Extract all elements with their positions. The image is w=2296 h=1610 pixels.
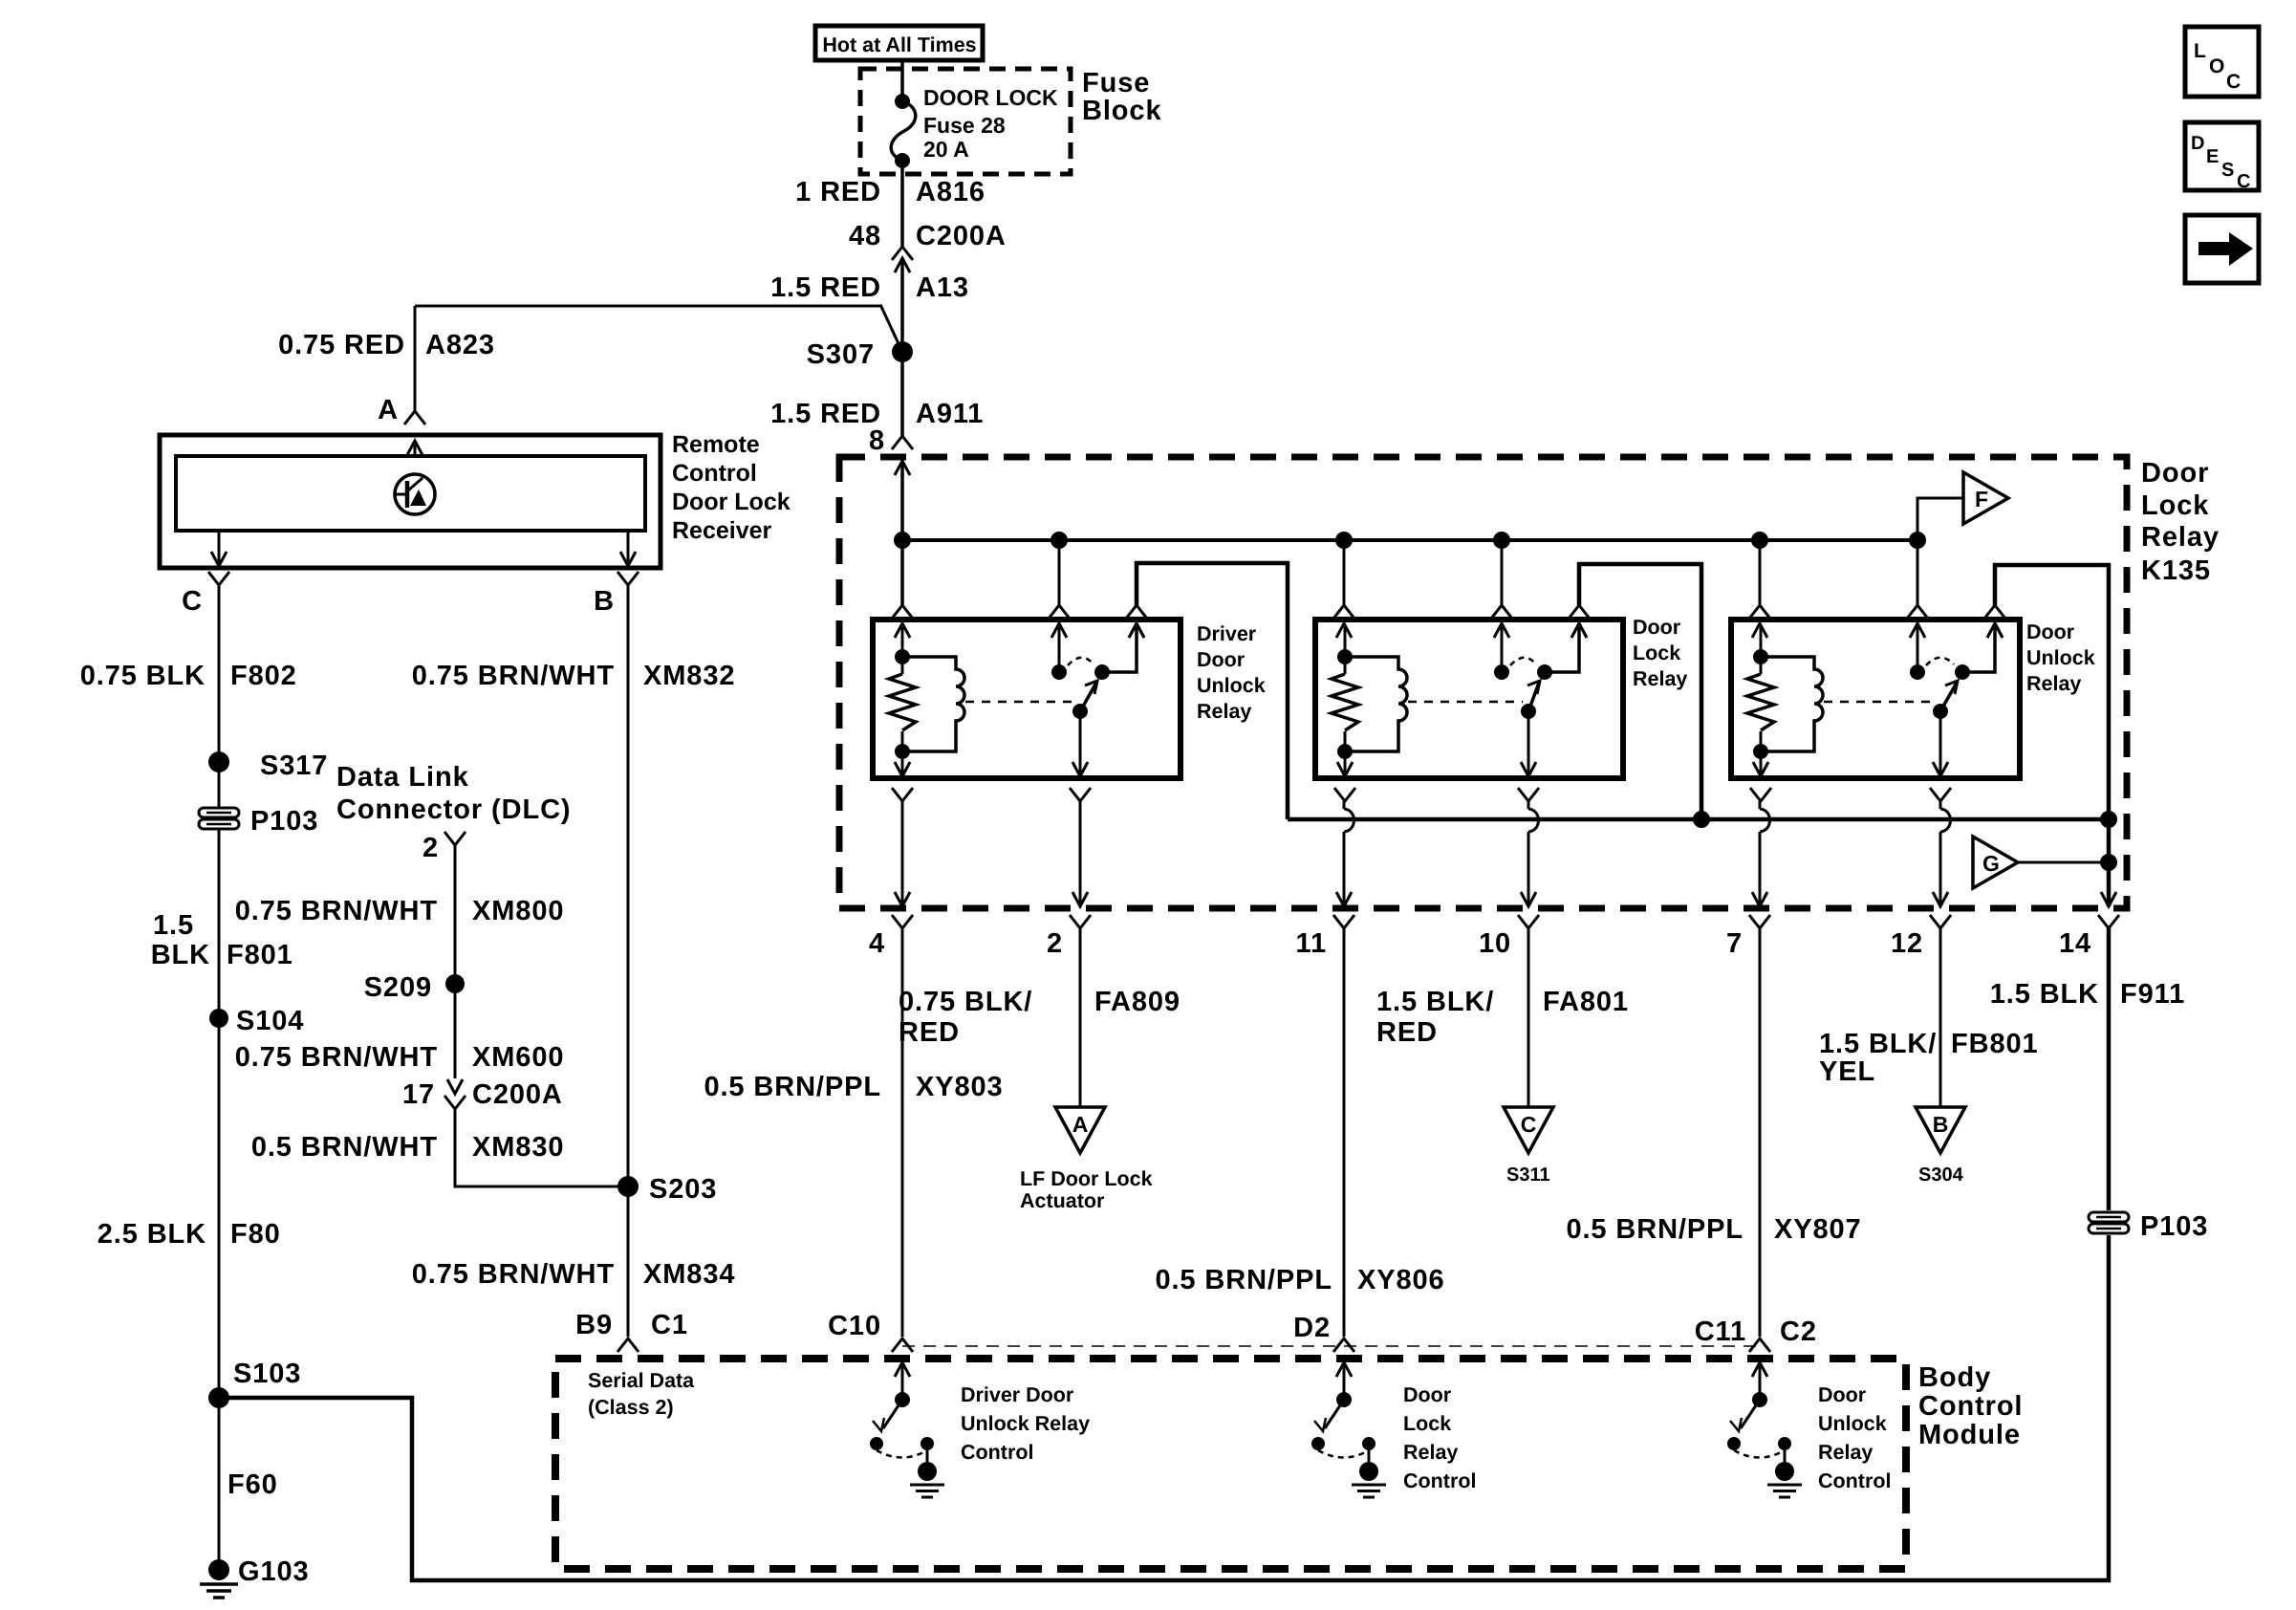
relay arm pivot xyxy=(1072,704,1088,719)
connector C200A pin 48 (female) xyxy=(892,247,913,260)
pass-through P103 (left) xyxy=(199,808,239,817)
wire: 1.5 BLK F911 ground leg from pin 14 xyxy=(2107,928,2112,1210)
connector: receiver pin C female xyxy=(208,572,229,585)
relay coil feed stem xyxy=(1344,627,1347,657)
svg-text:0.75 BRN/WHT: 0.75 BRN/WHT xyxy=(235,1042,438,1073)
BCM driver switch arm xyxy=(1325,1400,1344,1428)
connector: K135 bottom pin (male arrow down) xyxy=(1933,892,1948,906)
power label box: Hot at All Times xyxy=(815,26,983,60)
svg-text:Relay: Relay xyxy=(1197,700,1251,723)
svg-text:Unlock: Unlock xyxy=(1818,1412,1887,1435)
off-page connector G xyxy=(1973,837,2018,888)
ground G103 xyxy=(208,1559,229,1580)
relay arm pivot xyxy=(1521,704,1536,719)
relay NC lead arrow to box top xyxy=(1987,623,2003,638)
BCM second contact xyxy=(921,1437,934,1450)
svg-text:S: S xyxy=(2221,160,2234,181)
junction: lower bus at pin 14 leg xyxy=(2100,811,2117,828)
legend box forward arrow xyxy=(2185,215,2259,283)
svg-text:S209: S209 xyxy=(364,972,432,1003)
svg-text:S104: S104 xyxy=(236,1006,304,1036)
connector: K135 bottom pin (female) xyxy=(1749,915,1770,928)
svg-text:A: A xyxy=(378,395,399,425)
BCM internal ground xyxy=(1784,1450,1787,1462)
svg-text:A823: A823 xyxy=(425,330,495,360)
wire: receiver pin A lead xyxy=(414,306,417,411)
connector at relay box top (male arrow) xyxy=(1752,623,1767,638)
Door Lock Relay K135 dashed outline xyxy=(839,457,2127,908)
relay box xyxy=(1315,620,1623,778)
svg-text:Control: Control xyxy=(1818,1469,1891,1492)
BCM second contact xyxy=(1362,1437,1375,1450)
relay coil output arrow xyxy=(1344,751,1347,774)
svg-text:Unlock: Unlock xyxy=(1197,674,1266,697)
relay box xyxy=(1731,620,2020,778)
connector: BCM pin B9/C1 female xyxy=(617,1338,639,1352)
BCM internal ground xyxy=(1368,1450,1371,1462)
svg-text:0.75 RED: 0.75 RED xyxy=(278,330,405,360)
svg-text:Control: Control xyxy=(1403,1469,1476,1492)
svg-text:10: 10 xyxy=(1479,928,1511,959)
svg-text:XY803: XY803 xyxy=(916,1072,1004,1102)
wire: G branch xyxy=(2017,861,2109,864)
relay suppression resistor xyxy=(1344,657,1347,674)
connector: K135 bottom pin (male arrow down) xyxy=(1752,892,1767,906)
svg-text:Lock: Lock xyxy=(1633,642,1680,664)
svg-text:0.75 BLK/: 0.75 BLK/ xyxy=(899,987,1032,1017)
svg-text:1.5 RED: 1.5 RED xyxy=(770,399,881,429)
svg-text:1.5 BLK/: 1.5 BLK/ xyxy=(1819,1029,1937,1059)
BCM contact dashed arc xyxy=(1734,1450,1785,1458)
svg-text:Unlock: Unlock xyxy=(2026,646,2095,669)
connector below relay box (female) xyxy=(1070,788,1091,801)
connector: K135 pin 8 (male arrow) xyxy=(895,461,910,475)
svg-text:Control: Control xyxy=(672,460,757,487)
svg-text:S307: S307 xyxy=(807,339,875,370)
svg-text:C10: C10 xyxy=(828,1311,881,1341)
svg-text:XY807: XY807 xyxy=(1774,1214,1862,1245)
svg-text:Receiver: Receiver xyxy=(672,517,772,544)
connector at relay box top (male arrow) xyxy=(1987,623,2003,638)
splice S307 xyxy=(892,341,913,362)
svg-text:Door: Door xyxy=(2141,458,2209,489)
svg-text:Relay: Relay xyxy=(1403,1441,1458,1464)
connector at relay box top (male arrow) xyxy=(1336,623,1352,638)
BCM low-side driver arrow xyxy=(1752,1362,1767,1377)
wire: 0.5 BRN/PPL XY807 pin7 to BCM C11/C2 xyxy=(1759,928,1762,1337)
relay contact dashed throw arc xyxy=(1926,658,1954,665)
relay contact dashed throw arc xyxy=(1510,658,1536,665)
svg-text:Driver Door: Driver Door xyxy=(961,1383,1074,1406)
svg-text:S203: S203 xyxy=(649,1174,717,1205)
connector: K135 bottom pin (female) xyxy=(1070,915,1091,928)
svg-text:D2: D2 xyxy=(1293,1313,1331,1343)
connector at relay box top (male arrow) xyxy=(895,623,910,638)
connector: receiver pin A male arrow xyxy=(407,441,422,455)
connector at relay box top (female) xyxy=(1333,605,1354,619)
svg-text:O: O xyxy=(2209,55,2224,77)
splice S203 xyxy=(617,1176,639,1197)
svg-text:8: 8 xyxy=(869,425,885,456)
wire: fuse output 1 RED A816 xyxy=(900,168,904,247)
wire: relay feed drops from bus to relay tops xyxy=(1058,540,1061,605)
svg-text:7: 7 xyxy=(1726,928,1743,959)
wire: 1.5 BLK/YEL FB801 pin12 to S304 xyxy=(1939,928,1942,1107)
junction: bus to door unlock relay switch feed / F branch xyxy=(1909,532,1926,549)
svg-text:Data Link: Data Link xyxy=(336,762,469,793)
svg-text:DOOR LOCK: DOOR LOCK xyxy=(923,85,1058,110)
svg-text:B: B xyxy=(594,586,615,617)
connector C200A pin 17 (female) xyxy=(444,1096,466,1109)
svg-text:Lock: Lock xyxy=(1403,1412,1451,1435)
junction: bus at pin8 wire xyxy=(894,532,911,549)
svg-text:A: A xyxy=(1072,1112,1089,1137)
svg-text:C: C xyxy=(2226,71,2241,93)
svg-text:1.5 BLK: 1.5 BLK xyxy=(1990,979,2099,1010)
connector: K135 pin 8 (female) xyxy=(892,436,913,449)
svg-text:0.5 BRN/WHT: 0.5 BRN/WHT xyxy=(251,1132,438,1163)
receiver RF transistor symbol xyxy=(395,474,435,514)
BCM driver node xyxy=(895,1392,910,1407)
svg-text:G103: G103 xyxy=(238,1556,310,1587)
relay NC contact lead xyxy=(1545,627,1579,672)
connector: BCM D2 female xyxy=(1333,1338,1354,1352)
connector at relay box top (female) xyxy=(1749,605,1770,619)
svg-text:C: C xyxy=(1521,1112,1537,1137)
svg-text:(Class 2): (Class 2) xyxy=(588,1396,674,1419)
relay coil feed stem xyxy=(901,627,904,657)
relay actuation dashed link xyxy=(965,701,1074,704)
wire: 1.5 BLK/RED FA801 pin10 to S311 xyxy=(1527,928,1530,1107)
relay suppression resistor xyxy=(1760,657,1763,674)
lower bus wire inside K135 xyxy=(1288,817,2109,822)
junction: door lock relay NC route on lower bus xyxy=(1693,811,1710,828)
svg-text:B9: B9 xyxy=(575,1310,613,1340)
fuse F28 element (DOOR LOCK fuse) xyxy=(895,94,910,109)
svg-text:G: G xyxy=(1982,851,2000,876)
junction: bus to door lock relay coil feed xyxy=(1335,532,1353,549)
junction: bus to door unlock relay coil feed xyxy=(1751,532,1768,549)
svg-text:XM830: XM830 xyxy=(472,1132,564,1163)
svg-text:0.5 BRN/PPL: 0.5 BRN/PPL xyxy=(704,1072,881,1102)
connector: K135 bottom pin (male arrow down) xyxy=(895,892,910,906)
svg-text:Connector (DLC): Connector (DLC) xyxy=(336,794,571,825)
ground routing wire to S103 xyxy=(219,1235,2109,1580)
svg-text:Relay: Relay xyxy=(2141,522,2220,553)
connector at relay box top (male arrow) xyxy=(1129,623,1144,638)
svg-text:Door: Door xyxy=(1818,1383,1867,1406)
svg-text:Door: Door xyxy=(1197,648,1245,671)
relay NC lead arrow to box top xyxy=(1571,623,1587,638)
relay NC lead arrow to box top xyxy=(1129,623,1144,638)
BCM driver node xyxy=(1336,1392,1352,1407)
svg-text:L: L xyxy=(2194,40,2206,62)
svg-text:C1: C1 xyxy=(651,1310,688,1340)
connector at relay box top (female) xyxy=(1907,605,1928,619)
svg-text:XM834: XM834 xyxy=(643,1259,735,1290)
svg-text:XM600: XM600 xyxy=(472,1042,564,1073)
relay switch common contact xyxy=(1910,664,1925,680)
svg-text:RED: RED xyxy=(1376,1017,1438,1048)
svg-text:FB801: FB801 xyxy=(1951,1029,2039,1059)
wire: branch to off-page connector F xyxy=(1917,498,1963,540)
svg-text:Driver: Driver xyxy=(1197,622,1257,645)
wire: door unlock relay NC route xyxy=(1995,565,2109,906)
svg-text:Actuator: Actuator xyxy=(1020,1189,1105,1212)
connector below relay box (female) xyxy=(892,788,913,801)
svg-text:1.5 BLK/: 1.5 BLK/ xyxy=(1376,987,1494,1017)
relay NC contact xyxy=(1537,664,1552,680)
connector: K135 bottom pin (female) xyxy=(1930,915,1951,928)
svg-text:0.75 BRN/WHT: 0.75 BRN/WHT xyxy=(235,896,438,926)
svg-text:S304: S304 xyxy=(1918,1164,1964,1186)
relay coil bottom junction xyxy=(895,744,910,759)
wire: 1.5 RED A13 xyxy=(900,258,904,352)
wire: door lock relay NC route xyxy=(1579,564,1701,819)
svg-text:Serial Data: Serial Data xyxy=(588,1369,695,1392)
svg-text:20 A: 20 A xyxy=(923,137,969,162)
wire: relay switch output to pin 10 (jumps lower bus) xyxy=(1527,801,1530,809)
svg-text:F801: F801 xyxy=(227,940,293,970)
BCM second contact xyxy=(1778,1437,1791,1450)
connector: K135 bottom pin (male arrow down) xyxy=(1336,892,1352,906)
off-page connector F xyxy=(1963,472,2008,524)
svg-text:17: 17 xyxy=(402,1079,435,1110)
wire: branch to receiver pin A (0.75 RED A823) xyxy=(415,305,880,308)
svg-text:C11: C11 xyxy=(1695,1316,1746,1347)
relay actuation dashed link xyxy=(1824,701,1935,704)
relay NC contact lead xyxy=(1102,627,1137,672)
svg-text:1.5: 1.5 xyxy=(153,910,194,941)
relay coil winding xyxy=(1761,657,1823,751)
svg-text:S317: S317 xyxy=(260,751,328,781)
svg-text:F80: F80 xyxy=(230,1219,281,1250)
svg-text:Hot at All Times: Hot at All Times xyxy=(822,33,976,56)
off-page connector C (S311) xyxy=(1504,1107,1553,1153)
svg-text:Lock: Lock xyxy=(2141,490,2209,521)
connector below relay box (female) xyxy=(1334,788,1355,801)
relay movable arm xyxy=(1528,683,1539,711)
BCM low-side driver arrow xyxy=(1336,1362,1352,1377)
connector at relay box top (female) xyxy=(892,605,913,619)
wire: hot feed from fuse block top xyxy=(900,60,904,96)
svg-text:K135: K135 xyxy=(2141,555,2211,586)
svg-text:2.5 BLK: 2.5 BLK xyxy=(97,1219,206,1250)
svg-text:XM832: XM832 xyxy=(643,661,735,691)
connector at relay box top (male arrow) xyxy=(1910,623,1925,638)
relay coil top junction xyxy=(895,649,910,664)
svg-text:E: E xyxy=(2206,146,2219,167)
svg-text:B: B xyxy=(1933,1112,1949,1137)
relay movable arm xyxy=(1080,683,1096,711)
BCM driver switch arm xyxy=(883,1400,902,1428)
connector at relay box top (male arrow) xyxy=(1494,623,1509,638)
BCM switch contact xyxy=(1311,1437,1325,1450)
wire: 0.75 BLK/RED FA809 pin2 to LF door lock actuator xyxy=(1079,928,1082,1107)
connector: BCM C11/C2 female xyxy=(1749,1338,1770,1352)
connector at relay box top (male arrow) xyxy=(1571,623,1587,638)
connector: K135 bottom pin (male arrow down) xyxy=(1521,892,1536,906)
wire: 0.75 BLK F802 / ground chain from receiver pin C xyxy=(218,585,221,1560)
connector: K135 bottom pin (male arrow down) xyxy=(2101,892,2116,906)
legend box DESC xyxy=(2185,122,2259,190)
relay movable arm xyxy=(1940,683,1957,711)
connector: K135 bottom pin (female) xyxy=(1518,915,1539,928)
svg-text:A13: A13 xyxy=(916,272,969,303)
svg-text:S103: S103 xyxy=(233,1359,301,1389)
wire: relay coil output to pin 4 xyxy=(901,801,904,906)
svg-text:Relay: Relay xyxy=(2026,672,2081,695)
svg-text:12: 12 xyxy=(1891,928,1923,959)
splice S104 xyxy=(209,1009,228,1028)
wire: K135 internal feed down to bus xyxy=(900,461,904,605)
relay actuation dashed link xyxy=(1408,701,1523,704)
relay switch common contact xyxy=(1051,664,1067,680)
svg-text:Block: Block xyxy=(1082,96,1161,126)
svg-text:YEL: YEL xyxy=(1819,1056,1875,1087)
svg-text:F911: F911 xyxy=(2120,979,2185,1010)
svg-text:Module: Module xyxy=(1918,1420,2021,1450)
svg-text:FA809: FA809 xyxy=(1094,987,1180,1017)
wire: 0.5 BRN/PPL XY806 pin11 to BCM D2 xyxy=(1343,928,1346,1337)
relay switch common contact xyxy=(1494,664,1509,680)
BCM driver switch arm xyxy=(1741,1400,1760,1428)
relay arm pivot xyxy=(1933,704,1948,719)
BCM contact dashed arc xyxy=(1318,1450,1369,1458)
legend box LOC xyxy=(2185,27,2259,97)
svg-text:11: 11 xyxy=(1296,928,1327,959)
svg-text:Fuse 28: Fuse 28 xyxy=(923,113,1006,138)
svg-text:Door: Door xyxy=(2026,620,2075,643)
connector: receiver pin B female xyxy=(617,572,639,585)
svg-text:1 RED: 1 RED xyxy=(795,177,881,207)
connector at relay box top (female) xyxy=(1126,605,1147,619)
svg-text:Fuse: Fuse xyxy=(1082,68,1150,98)
relay switch feed stem to common contact xyxy=(1917,627,1919,672)
Fuse Block dashed outline xyxy=(860,69,1071,174)
svg-text:C: C xyxy=(2237,171,2250,192)
svg-text:4: 4 xyxy=(869,928,885,959)
relay box xyxy=(873,620,1180,778)
connector: K135 bottom pin (female) xyxy=(892,915,913,928)
junction: bus to door lock relay switch feed xyxy=(1493,532,1510,549)
relay coil winding xyxy=(902,657,964,751)
svg-text:C: C xyxy=(182,586,203,617)
relay NC contact xyxy=(1955,664,1970,680)
svg-text:F802: F802 xyxy=(230,661,297,691)
connector: K135 bottom pin (male arrow down) xyxy=(1072,892,1088,906)
svg-text:Unlock Relay: Unlock Relay xyxy=(961,1412,1090,1435)
relay switch feed stem to common contact xyxy=(1501,627,1504,672)
svg-text:Body: Body xyxy=(1918,1362,1991,1393)
connector below relay box (female) xyxy=(1750,788,1771,801)
BCM switch contact xyxy=(1727,1437,1741,1450)
junction: bus to driver door unlock relay switch feed xyxy=(1051,532,1068,549)
svg-text:Relay: Relay xyxy=(1633,667,1687,690)
relay suppression resistor xyxy=(901,657,904,674)
connector below relay box (female) xyxy=(1930,788,1951,801)
svg-text:A911: A911 xyxy=(916,399,984,429)
relay switched output arrow xyxy=(1939,711,1942,774)
svg-text:Relay: Relay xyxy=(1818,1441,1873,1464)
svg-text:48: 48 xyxy=(849,221,881,251)
relay coil bottom junction xyxy=(1753,744,1768,759)
svg-text:14: 14 xyxy=(2059,928,2091,959)
relay NC contact xyxy=(1094,664,1110,680)
relay coil bottom junction xyxy=(1337,744,1353,759)
svg-text:0.5 BRN/PPL: 0.5 BRN/PPL xyxy=(1155,1265,1332,1295)
wire: serial data from receiver pin B xyxy=(627,585,630,1337)
svg-text:C200A: C200A xyxy=(472,1079,563,1110)
svg-text:XY806: XY806 xyxy=(1357,1265,1445,1295)
wire: 0.5 BRN/WHT XM830 xyxy=(455,1109,628,1186)
pass-through P103 (right) xyxy=(2089,1212,2129,1222)
svg-text:BLK: BLK xyxy=(151,940,210,970)
splice S317 xyxy=(208,751,229,772)
connector: BCM C10 female xyxy=(892,1338,913,1352)
svg-text:P103: P103 xyxy=(2140,1211,2208,1242)
connector at relay box top (male arrow) xyxy=(1051,623,1067,638)
svg-text:C2: C2 xyxy=(1780,1316,1817,1347)
svg-text:Door: Door xyxy=(1633,616,1681,639)
Body Control Module dashed outline xyxy=(555,1359,1906,1569)
relay switched output arrow xyxy=(1079,711,1082,774)
svg-text:0.5 BRN/PPL: 0.5 BRN/PPL xyxy=(1566,1214,1744,1245)
wire: 0.5 BRN/PPL XY803 pin4 to BCM C10 xyxy=(901,928,904,1337)
svg-text:S311: S311 xyxy=(1506,1164,1550,1186)
relay coil top junction xyxy=(1337,649,1353,664)
BCM low-side driver arrow xyxy=(895,1362,910,1377)
relay NC contact lead xyxy=(1962,627,1995,672)
wire: relay switch output to pin 12 (jumps lower bus) xyxy=(1939,801,1942,809)
relay coil output arrow xyxy=(901,751,904,774)
svg-text:0.75 BLK: 0.75 BLK xyxy=(80,661,206,691)
svg-text:2: 2 xyxy=(1047,928,1063,959)
connector at relay box top (female) xyxy=(1569,605,1590,619)
BCM driver node xyxy=(1752,1392,1767,1407)
BCM switch contact xyxy=(870,1437,883,1450)
svg-text:FA801: FA801 xyxy=(1543,987,1629,1017)
svg-text:F60: F60 xyxy=(227,1469,278,1500)
relay coil top junction xyxy=(1753,649,1768,664)
wire: 1.5 RED A911 into door lock relay xyxy=(900,352,904,436)
svg-text:0.75 BRN/WHT: 0.75 BRN/WHT xyxy=(412,661,615,691)
connector C200A pin 17 (male arrow down) xyxy=(447,1079,463,1094)
BCM contact dashed arc xyxy=(877,1450,927,1458)
svg-text:F: F xyxy=(1975,487,1988,511)
splice S103 xyxy=(208,1387,229,1408)
relay switch feed stem to common contact xyxy=(1058,627,1061,672)
top bus wire inside K135 xyxy=(902,538,1917,542)
relay switched output arrow xyxy=(1527,711,1530,774)
svg-text:D: D xyxy=(2191,133,2204,154)
wire: driver door unlock relay NC route xyxy=(1137,563,1288,819)
connector: DLC pin 2 female xyxy=(444,832,466,845)
receiver pin C arrow xyxy=(218,531,221,564)
connector: K135 bottom pin (female) xyxy=(1333,915,1354,928)
svg-text:2: 2 xyxy=(422,833,439,863)
connector: K135 bottom pin (female) xyxy=(2098,915,2119,928)
receiver inner box xyxy=(176,456,645,531)
svg-text:Control: Control xyxy=(961,1441,1033,1464)
svg-text:1.5 RED: 1.5 RED xyxy=(770,272,881,303)
svg-text:0.75 BRN/WHT: 0.75 BRN/WHT xyxy=(412,1259,615,1290)
Remote Control Door Lock Receiver outer box xyxy=(160,435,661,568)
svg-text:Door Lock: Door Lock xyxy=(672,489,791,515)
BCM connector face thin dashed line xyxy=(902,1345,1760,1347)
off-page connector A (LF Door Lock Actuator) xyxy=(1055,1107,1105,1153)
svg-text:A816: A816 xyxy=(916,177,986,207)
